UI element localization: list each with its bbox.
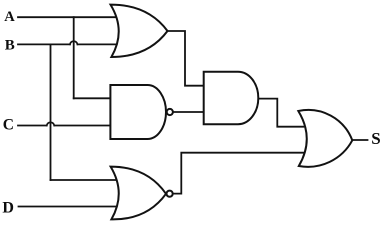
wire G2 output to AND G4 bottom input: [173, 111, 204, 113]
wire G4 output to OR G5 top input: [258, 99, 304, 127]
wire jog (B wire hops over A branch): [70, 41, 78, 44]
wire A (input A to OR gate G1 top input): [18, 16, 118, 18]
or-gate G1 (inputs A,B): [111, 5, 168, 57]
wire G1 output to AND G4 top input: [167, 31, 205, 86]
svg-text:S: S: [371, 129, 380, 148]
and-gate G4 (inputs from G1,G2): [204, 72, 259, 125]
wire C (input C to NAND G2 bottom input): [18, 125, 47, 127]
wire NAND G2 top input (horizontal): [74, 97, 111, 99]
svg-text:A: A: [4, 9, 15, 25]
wire B branch (vertical from B wire down to NOR G3 top input): [50, 44, 52, 180]
wire A branch (vertical from A wire down to NAND G2 top input): [73, 17, 75, 98]
wire D (input D to NOR G3 bottom input): [19, 206, 119, 208]
wire G3 output to OR G5 bottom input: [173, 153, 304, 194]
wire jog (C wire hops over B branch): [47, 122, 55, 125]
or-gate G5 (output S): [298, 110, 352, 167]
wire NOR G3 top input (horizontal): [51, 179, 119, 181]
svg-text:C: C: [3, 117, 14, 134]
wire B (input B to OR gate G1 bottom input): [18, 43, 70, 45]
wire G5 output to S: [352, 139, 367, 141]
nand-gate G2 (inputs A-branch,C): [110, 85, 172, 139]
svg-text:B: B: [5, 37, 15, 53]
nor-gate G3 (inputs B-branch,D): [111, 167, 173, 220]
svg-text:D: D: [2, 200, 14, 217]
